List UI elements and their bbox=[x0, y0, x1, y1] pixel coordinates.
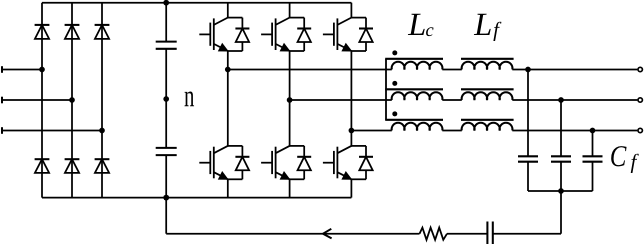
wire Cf c to bus bbox=[592, 162, 594, 191]
label n bbox=[185, 91, 195, 106]
wire c down to Cf bbox=[592, 131, 594, 157]
wire resistor to capacitor bbox=[447, 233, 487, 235]
inductor Lf winding b bbox=[461, 89, 514, 100]
wire top rail to Q3 bbox=[350, 3, 352, 18]
node Cf tap c junction bbox=[590, 128, 596, 134]
transistor Q6 (bottom IGBT leg 3) bbox=[323, 146, 366, 180]
diode Q5D (antiparallel) bbox=[290, 146, 312, 179]
node Cf star junction bbox=[558, 188, 564, 194]
inductor Lc winding c bbox=[385, 120, 443, 131]
wire phase b inverter to Lc bbox=[290, 99, 392, 101]
inductor Lf winding a bbox=[461, 59, 514, 70]
node dc+ junction bbox=[163, 0, 169, 6]
capacitor Cf b bbox=[551, 156, 571, 161]
wire Cf a to bus bbox=[527, 162, 529, 191]
node Cf tap a junction bbox=[525, 67, 531, 73]
capacitor Cf a bbox=[518, 156, 538, 161]
node ac-b junction bbox=[69, 97, 75, 103]
wire top rail to Q1 bbox=[227, 3, 229, 18]
wire dc-link middle bbox=[165, 49, 167, 148]
wire Q4 emitter to bottom rail bbox=[227, 179, 229, 197]
wire Q1 emitter to phase node bbox=[227, 51, 229, 70]
label Lf bbox=[474, 14, 491, 35]
wire top rail to Q2 bbox=[289, 3, 291, 18]
wire Lc core (shared) bbox=[385, 59, 387, 120]
diode D4 (rectifier bottom) bbox=[35, 158, 50, 160]
wire phase node to Q4 bbox=[227, 70, 229, 146]
wire Q2 emitter to phase node bbox=[289, 51, 291, 100]
transistor Q1 (top IGBT leg 1) bbox=[199, 17, 242, 51]
transistor Q4 (bottom IGBT leg 1) bbox=[199, 146, 242, 180]
node ac-c junction bbox=[99, 128, 105, 134]
inductor Lf winding c bbox=[461, 120, 514, 131]
capacitor Cf c bbox=[583, 156, 603, 161]
diode D5 (rectifier bottom) bbox=[65, 158, 80, 160]
wire Lf to output b bbox=[512, 99, 637, 101]
wire phase node to Q6 bbox=[350, 131, 352, 146]
wire rectifier leg 1 bbox=[41, 3, 43, 198]
capacitor Cdc2 (lower dc-link) bbox=[156, 148, 177, 155]
wire ac phase c bbox=[2, 130, 102, 132]
ac input tick phase a bbox=[1, 66, 3, 73]
wire ac phase b bbox=[2, 99, 72, 101]
wire dc-link lower bbox=[165, 155, 167, 198]
diode Q2D (antiparallel) bbox=[290, 18, 312, 51]
inductor Lc winding b bbox=[385, 89, 443, 100]
inductor Lc winding a bbox=[385, 59, 443, 70]
diode D6 (rectifier bottom) bbox=[95, 158, 110, 160]
wire phase node to Q5 bbox=[289, 100, 291, 146]
polarity dot Lc c bbox=[392, 111, 397, 116]
label Cf bbox=[611, 146, 626, 166]
wire Lc to Lf b bbox=[442, 99, 462, 101]
wire phase a inverter to Lc bbox=[228, 69, 392, 71]
diode Q4D (antiparallel) bbox=[228, 146, 250, 179]
node Cf tap b junction bbox=[558, 97, 564, 103]
terminal output c bbox=[638, 128, 642, 132]
wire feedback to resistor bbox=[323, 233, 420, 235]
wire rectifier leg 3 bbox=[101, 3, 103, 198]
wire b down to Cf bbox=[560, 100, 562, 156]
wire feedback left segment bbox=[166, 233, 323, 235]
arrow feedback (pointing left) bbox=[323, 229, 332, 239]
wire Q6 emitter to bottom rail bbox=[350, 179, 352, 197]
wire bottom dc rail bbox=[42, 197, 351, 199]
polarity dot Lc a bbox=[392, 50, 397, 55]
wire Q5 emitter to bottom rail bbox=[289, 179, 291, 197]
terminal output b bbox=[638, 98, 642, 102]
polarity dot Lc b bbox=[392, 81, 397, 86]
wire a down to Cf bbox=[527, 70, 529, 157]
node feedback tap junction bbox=[163, 195, 169, 201]
transistor Q2 (top IGBT leg 2) bbox=[261, 17, 304, 51]
ac input tick phase b bbox=[1, 97, 3, 104]
ac input tick phase c bbox=[1, 127, 3, 134]
wire dc-link upper bbox=[165, 3, 167, 42]
wire phase c inverter to Lc bbox=[351, 130, 391, 132]
label Lc bbox=[408, 14, 425, 35]
diode Q6D (antiparallel) bbox=[351, 146, 373, 179]
wire top dc rail bbox=[42, 2, 351, 4]
wire Lf to output c bbox=[512, 130, 637, 132]
wire feedback down bbox=[165, 198, 167, 234]
capacitor C (feedback) bbox=[487, 222, 492, 244]
node ac-a junction bbox=[39, 67, 45, 73]
wire rectifier leg 2 bbox=[71, 3, 73, 198]
diode D2 (rectifier top) bbox=[65, 24, 80, 26]
diode D3 (rectifier top) bbox=[95, 24, 110, 26]
transistor Q5 (bottom IGBT leg 2) bbox=[261, 146, 304, 180]
wire Lf to output a bbox=[512, 69, 637, 71]
capacitor Cdc1 (upper dc-link) bbox=[156, 42, 177, 49]
wire Lc to Lf c bbox=[442, 130, 462, 132]
wire Lc to Lf a bbox=[442, 69, 462, 71]
node phase b junction bbox=[287, 97, 293, 103]
node phase a junction bbox=[225, 67, 231, 73]
transistor Q3 (top IGBT leg 3) bbox=[323, 17, 366, 51]
node n junction bbox=[163, 96, 169, 102]
wire Cf common bus bbox=[528, 190, 593, 192]
node phase c junction bbox=[349, 128, 355, 134]
resistor R (feedback) bbox=[420, 228, 448, 240]
diode Q3D (antiparallel) bbox=[351, 18, 373, 51]
wire Cf b to bus bbox=[560, 162, 562, 191]
wire Q3 emitter to phase node bbox=[350, 51, 352, 131]
wire ac phase a bbox=[2, 69, 42, 71]
diode Q1D (antiparallel) bbox=[228, 18, 250, 51]
diode D1 (rectifier top) bbox=[35, 24, 50, 26]
terminal output a bbox=[638, 67, 642, 71]
wire capacitor to Cf bus bbox=[493, 233, 561, 235]
node dc- junction bbox=[163, 195, 169, 201]
